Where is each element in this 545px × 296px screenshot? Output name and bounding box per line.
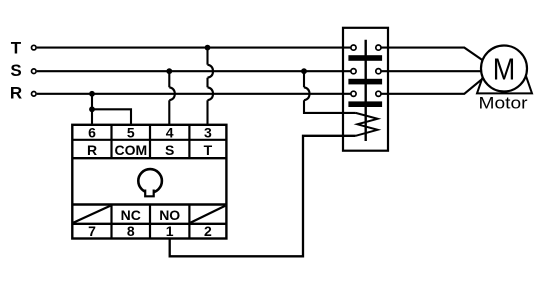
svg-text:1: 1 (166, 223, 174, 239)
relay column divider a bottom (110, 205, 112, 239)
svg-text:S: S (10, 61, 21, 80)
wire S to coil top with hop over R (303, 71, 305, 87)
svg-text:R: R (10, 84, 22, 103)
contactor actuator bar (365, 40, 367, 141)
relay column divider a top (110, 125, 112, 158)
wire terminal 1 to coil bottom (170, 136, 356, 256)
svg-text:4: 4 (166, 124, 174, 140)
wire branch to terminal 5 (92, 109, 131, 125)
diagonal no-connect cell right (191, 206, 226, 223)
wire drop S to terminal 4 with hop (168, 71, 170, 87)
lamp symbol (138, 169, 162, 193)
wire contact 1 to motor (381, 48, 483, 61)
relay column divider c bottom (188, 205, 190, 239)
node dot on S line (166, 68, 172, 74)
svg-text:S: S (165, 142, 174, 158)
svg-text:NO: NO (159, 207, 180, 223)
svg-text:T: T (204, 142, 213, 158)
contact pole 1 right circle (376, 45, 381, 50)
wire T line (37, 47, 351, 49)
relay column divider b bottom (149, 205, 151, 239)
node dot on R line (89, 91, 95, 97)
svg-text:M: M (493, 53, 516, 87)
relay column divider b top (149, 125, 151, 158)
relay divider row4 (72, 223, 226, 225)
wire contact 2 to motor (381, 70, 481, 72)
terminal circle R (32, 92, 37, 97)
relay divider row2 (72, 157, 226, 159)
wire R line (37, 93, 351, 95)
svg-text:7: 7 (88, 223, 96, 239)
contact pole 2 bridge bar (348, 79, 382, 85)
relay column divider c top (188, 125, 190, 158)
motor base trapezoid (477, 63, 532, 93)
contact pole 3 right circle (376, 91, 381, 96)
contact pole 3 left circle (351, 91, 356, 96)
node dot on S line for coil feed (301, 68, 307, 74)
terminal circle S (32, 69, 37, 74)
wire drop T to terminal 3 with hops (206, 48, 208, 65)
svg-text:6: 6 (88, 124, 96, 140)
contact pole 2 left circle (351, 69, 356, 74)
diagonal no-connect cell left (74, 206, 111, 223)
svg-text:3: 3 (204, 124, 212, 140)
svg-text:R: R (87, 142, 97, 158)
svg-text:T: T (11, 39, 22, 58)
terminal circle T (32, 45, 37, 50)
contact pole 3 bridge bar (348, 101, 382, 107)
contactor coil K1 (356, 113, 378, 136)
node dot on T line (205, 45, 211, 51)
svg-text:8: 8 (127, 223, 135, 239)
contact pole 1 left circle (351, 45, 356, 50)
svg-text:Motor: Motor (479, 94, 528, 113)
relay block outline (72, 125, 226, 239)
contactor outline (343, 28, 388, 151)
wire contact 3 to motor (381, 78, 483, 94)
relay divider row3 (72, 203, 226, 205)
contact pole 1 bridge bar (348, 55, 382, 61)
svg-text:5: 5 (127, 124, 135, 140)
motor circle M (481, 46, 527, 92)
contact pole 2 right circle (376, 69, 381, 74)
node dot branch junction (89, 106, 95, 112)
svg-text:2: 2 (204, 223, 212, 239)
relay divider row1 (72, 139, 226, 141)
wire S line (37, 70, 351, 72)
svg-text:COM: COM (114, 142, 147, 158)
wire drop R to terminal 6 (91, 94, 93, 125)
svg-text:NC: NC (121, 207, 141, 223)
